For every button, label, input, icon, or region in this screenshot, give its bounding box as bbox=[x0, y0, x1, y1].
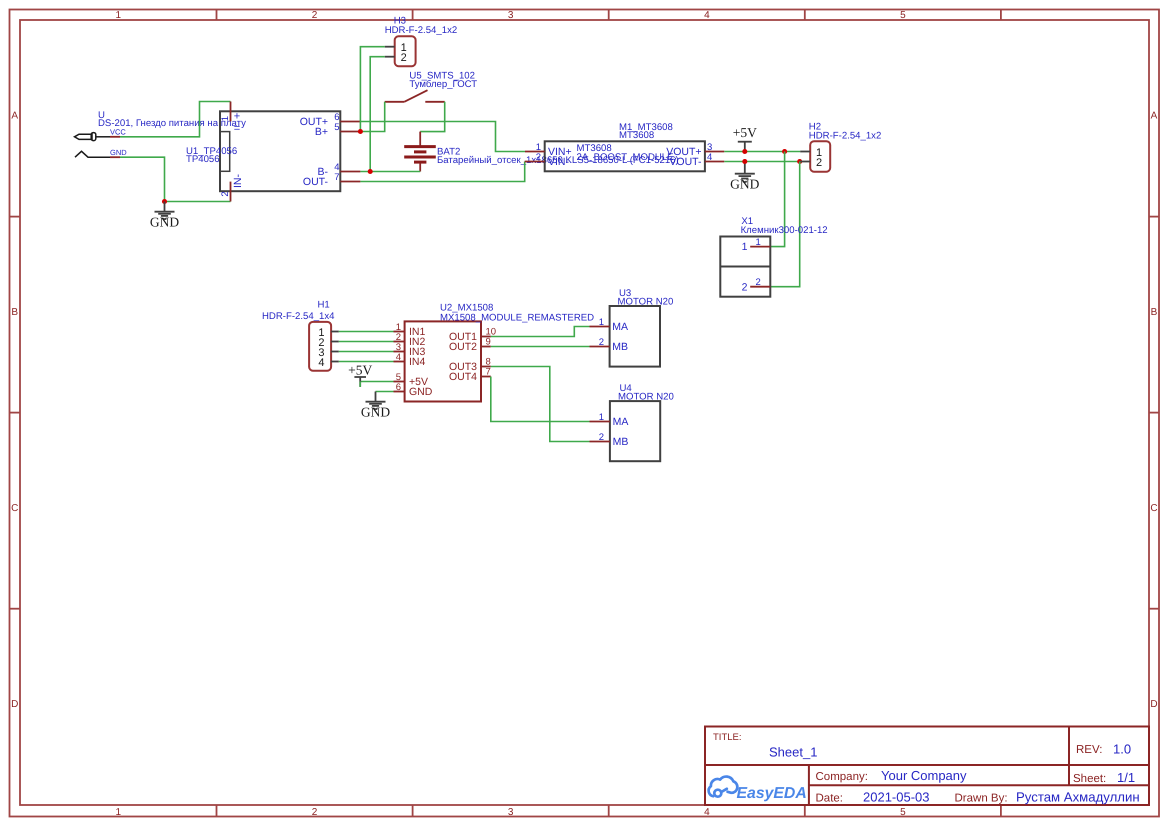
svg-text:2: 2 bbox=[816, 157, 822, 169]
pin U2 OUT1 bbox=[481, 336, 491, 338]
svg-text:1/1: 1/1 bbox=[1117, 770, 1135, 785]
connector H3 HDR-F-2.54_1x2 body bbox=[395, 36, 416, 66]
svg-text:HDR-F-2.54_1x4: HDR-F-2.54_1x4 bbox=[262, 311, 335, 322]
wire OUT+ net to M1 VIN+ bbox=[360, 122, 525, 152]
svg-text:5: 5 bbox=[900, 10, 906, 21]
svg-text:EasyEDA: EasyEDA bbox=[737, 785, 807, 802]
svg-text:MX1508_MODULE_REMASTERED: MX1508_MODULE_REMASTERED bbox=[440, 313, 594, 324]
pin X1.2 bbox=[750, 286, 770, 288]
svg-text:GND: GND bbox=[730, 177, 759, 192]
svg-text:+: + bbox=[234, 111, 240, 123]
svg-text:Company:: Company: bbox=[816, 771, 868, 783]
power flag +5V bbox=[738, 142, 752, 152]
battery BAT2 bbox=[419, 132, 421, 146]
pin H3.1 bbox=[385, 46, 395, 48]
svg-text:6: 6 bbox=[396, 382, 401, 393]
svg-text:B: B bbox=[11, 307, 18, 318]
svg-text:4: 4 bbox=[704, 10, 710, 21]
wire OUT- net to M1 VIN- bbox=[360, 162, 524, 182]
svg-text:TP4056: TP4056 bbox=[186, 154, 220, 165]
svg-text:+5V: +5V bbox=[733, 125, 757, 140]
svg-text:Sheet_1: Sheet_1 bbox=[769, 745, 817, 760]
wire OUT4 to U4 MA bbox=[491, 377, 590, 422]
wire +5V net to U2 pin5 bbox=[360, 381, 393, 383]
svg-text:2: 2 bbox=[742, 281, 748, 293]
terminal block X1 body bbox=[720, 237, 770, 297]
svg-text:MT3608: MT3608 bbox=[619, 130, 654, 141]
ground symbol at VOUT- bbox=[735, 162, 755, 183]
svg-text:9: 9 bbox=[486, 337, 491, 348]
svg-text:VIN-: VIN- bbox=[548, 156, 570, 168]
svg-text:IN-: IN- bbox=[232, 174, 244, 189]
switch U5 SMTS_102 toggle bbox=[385, 101, 405, 103]
pin U1.2 bottom IN- bbox=[230, 182, 232, 202]
svg-text:=: = bbox=[234, 122, 240, 134]
svg-text:OUT4: OUT4 bbox=[449, 371, 477, 383]
svg-text:Тумблер_ГОСТ: Тумблер_ГОСТ bbox=[409, 79, 477, 90]
svg-text:D: D bbox=[1150, 699, 1157, 710]
svg-text:2: 2 bbox=[401, 52, 407, 64]
svg-text:2021-05-03: 2021-05-03 bbox=[863, 790, 930, 805]
svg-text:2A_BOOST_MODULE: 2A_BOOST_MODULE bbox=[577, 152, 674, 163]
svg-text:MA: MA bbox=[612, 321, 628, 333]
svg-text:2: 2 bbox=[536, 152, 541, 163]
svg-text:Рустам Ахмадуллин: Рустам Ахмадуллин bbox=[1016, 790, 1140, 805]
wire H1.3 to U2 IN3 bbox=[339, 351, 394, 353]
wire +5V net to X1.1 bbox=[770, 152, 784, 247]
svg-text:4: 4 bbox=[318, 357, 324, 369]
pin M1.1 VIN+ bbox=[525, 151, 545, 153]
svg-text:MA: MA bbox=[613, 416, 629, 428]
pin H1.1 bbox=[331, 331, 339, 333]
svg-text:B: B bbox=[1151, 307, 1158, 318]
svg-text:GND: GND bbox=[409, 386, 433, 398]
pin U1.7 OUT- bbox=[340, 181, 360, 183]
pin U2 OUT4 bbox=[481, 376, 491, 378]
pin U4.1 MA bbox=[590, 421, 610, 423]
svg-text:Клемник300-021-12: Клемник300-021-12 bbox=[741, 225, 828, 236]
pin U2 OUT2 bbox=[481, 346, 491, 348]
svg-text:2: 2 bbox=[312, 807, 318, 818]
svg-text:4: 4 bbox=[704, 807, 710, 818]
pin H2.2 bbox=[800, 161, 810, 163]
pin U1.6 OUT+ bbox=[340, 121, 360, 123]
pin M1.2 VIN- bbox=[525, 161, 545, 163]
svg-text:1: 1 bbox=[756, 237, 761, 248]
pin U2.3 IN3 bbox=[394, 351, 405, 353]
svg-text:U2_MX1508: U2_MX1508 bbox=[440, 302, 493, 313]
svg-text:1: 1 bbox=[116, 807, 122, 818]
junction GND flag bbox=[742, 159, 747, 164]
svg-text:3: 3 bbox=[508, 10, 514, 21]
pin U2.2 IN2 bbox=[394, 341, 405, 343]
svg-text:7: 7 bbox=[334, 172, 339, 183]
pin U2.1 IN1 bbox=[394, 331, 405, 333]
svg-text:+5V: +5V bbox=[348, 362, 372, 377]
svg-text:5: 5 bbox=[334, 122, 339, 133]
junction GND net bbox=[162, 199, 167, 204]
ground symbol GND near jack bbox=[155, 202, 175, 220]
svg-text:OUT2: OUT2 bbox=[449, 341, 477, 353]
wire H3.1 to B+ net bbox=[360, 47, 384, 132]
ground symbol at U2 pin6 bbox=[366, 392, 386, 410]
wire H3.2 to B- net bbox=[370, 57, 385, 172]
module U1 TP4056 body bbox=[220, 111, 340, 191]
wire OUT3 to U4 MB bbox=[491, 367, 590, 442]
wire H1.4 to U2 IN4 bbox=[339, 361, 394, 363]
svg-text:2: 2 bbox=[599, 337, 604, 348]
pin U2.6 GND bbox=[394, 391, 405, 393]
svg-text:Drawn By:: Drawn By: bbox=[955, 793, 1008, 805]
svg-text:A: A bbox=[11, 111, 18, 122]
svg-text:1.0: 1.0 bbox=[1113, 741, 1131, 756]
motor U3 MOTOR N20 body bbox=[610, 306, 660, 367]
junction B+ net H3 bbox=[358, 129, 363, 134]
wire B+ to switch left bbox=[360, 102, 384, 132]
svg-text:5: 5 bbox=[900, 807, 906, 818]
pin U.2 GND bbox=[110, 156, 120, 158]
wire OUT2 to U3 MB bbox=[491, 346, 590, 348]
wire switch right to battery + bbox=[420, 102, 445, 132]
svg-text:B+: B+ bbox=[315, 126, 328, 138]
wire H1.2 to U2 IN2 bbox=[339, 341, 394, 343]
svg-text:Your Company: Your Company bbox=[881, 768, 967, 783]
svg-text:Sheet:: Sheet: bbox=[1073, 773, 1106, 785]
svg-text:7: 7 bbox=[486, 367, 491, 378]
pin M1.4 VOUT- bbox=[705, 161, 724, 163]
wire OUT1 to U3 MA bbox=[491, 327, 590, 337]
svg-text:VOUT-: VOUT- bbox=[669, 156, 702, 168]
pin X1.1 bbox=[750, 246, 770, 248]
pin U3.1 MA bbox=[590, 326, 610, 328]
pin U2.5 +5V bbox=[394, 381, 405, 383]
pin H3.2 bbox=[385, 56, 395, 58]
svg-text:HDR-F-2.54_1x2: HDR-F-2.54_1x2 bbox=[809, 130, 882, 141]
svg-text:1: 1 bbox=[220, 116, 231, 121]
svg-text:MB: MB bbox=[612, 341, 628, 353]
svg-text:REV:: REV: bbox=[1076, 744, 1102, 756]
wire GND net to U2 pin6 bbox=[376, 391, 394, 393]
svg-text:1: 1 bbox=[742, 241, 748, 253]
connector H2 HDR-F-2.54_1x2 body bbox=[810, 141, 830, 172]
svg-text:4: 4 bbox=[396, 352, 401, 363]
pin U4.2 MB bbox=[590, 441, 610, 443]
motor U4 MOTOR N20 body bbox=[610, 401, 660, 461]
svg-text:MOTOR N20: MOTOR N20 bbox=[618, 296, 674, 307]
pin U1.5 B+ bbox=[340, 131, 360, 133]
power flag +5V lower bbox=[354, 377, 366, 387]
svg-text:Date:: Date: bbox=[816, 793, 844, 805]
EasyEDA logo bbox=[709, 777, 738, 797]
svg-text:2: 2 bbox=[220, 191, 231, 196]
junction +5V flag bbox=[742, 149, 747, 154]
svg-text:OUT-: OUT- bbox=[303, 176, 329, 188]
pin M1.3 VOUT+ bbox=[705, 151, 724, 153]
svg-text:HDR-F-2.54_1x2: HDR-F-2.54_1x2 bbox=[385, 25, 458, 36]
connector H1 HDR-F-2.54_1x4 body bbox=[309, 322, 331, 371]
svg-text:C: C bbox=[1150, 503, 1157, 514]
title block bbox=[705, 727, 1149, 806]
module U2 MX1508 body bbox=[405, 321, 481, 401]
svg-text:1: 1 bbox=[116, 10, 122, 21]
svg-text:GND: GND bbox=[150, 215, 179, 230]
wire VCC net jack to TP4056 pin1 bbox=[120, 102, 231, 137]
pin U2 OUT3 bbox=[481, 366, 491, 368]
connector U DS-201 power jack symbol bbox=[75, 133, 111, 158]
pin H1.3 bbox=[331, 351, 339, 353]
wire B- net TP4056 to battery - bbox=[360, 171, 420, 173]
svg-text:2: 2 bbox=[756, 277, 761, 288]
wire GND net VOUT- to H2.2 bbox=[724, 161, 800, 163]
pin U2.4 IN4 bbox=[394, 361, 405, 363]
pin H1.2 bbox=[331, 341, 339, 343]
module M1 MT3608 body bbox=[545, 141, 705, 171]
pin H1.4 bbox=[331, 361, 339, 363]
svg-text:H1: H1 bbox=[318, 300, 330, 311]
svg-text:3: 3 bbox=[508, 807, 514, 818]
junction X1.1 tee bbox=[782, 149, 787, 154]
pin U3.2 MB bbox=[590, 346, 610, 348]
wire H1.1 to U2 IN1 bbox=[339, 331, 394, 333]
svg-text:MOTOR N20: MOTOR N20 bbox=[618, 392, 674, 403]
wire GND net jack to junction bbox=[120, 157, 231, 201]
svg-text:1: 1 bbox=[599, 412, 604, 423]
svg-text:MB: MB bbox=[613, 436, 629, 448]
svg-text:IN4: IN4 bbox=[409, 356, 426, 368]
wire GND net to X1.2 bbox=[770, 162, 799, 287]
svg-text:2: 2 bbox=[599, 432, 604, 443]
svg-text:TITLE:: TITLE: bbox=[713, 732, 742, 743]
pin U1.1 top + bbox=[230, 102, 232, 122]
junction B- net H3 bbox=[368, 169, 373, 174]
wire +5V net VOUT+ to H2.1 bbox=[724, 151, 800, 153]
svg-text:GND: GND bbox=[361, 405, 390, 420]
pin U.1 VCC bbox=[110, 136, 120, 138]
svg-text:A: A bbox=[1151, 111, 1158, 122]
svg-text:1: 1 bbox=[599, 317, 604, 328]
svg-text:C: C bbox=[11, 503, 18, 514]
svg-text:D: D bbox=[11, 699, 18, 710]
pin H2.1 bbox=[800, 151, 810, 153]
pin U1.4 B- bbox=[340, 171, 360, 173]
svg-text:2: 2 bbox=[312, 10, 318, 21]
svg-text:GND: GND bbox=[110, 148, 127, 157]
svg-text:4: 4 bbox=[707, 152, 712, 163]
junction X1.2 tee bbox=[797, 159, 802, 164]
